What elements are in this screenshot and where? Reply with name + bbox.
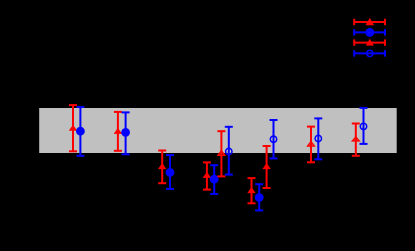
legend entry 1: red filled triangle [354,18,385,25]
series 3 point 4: red open triangle errorbar [217,131,225,176]
series 2 point 1: blue filled circle errorbar [76,107,85,156]
series 1 point 3: red filled triangle errorbar [158,151,166,184]
legend entry 2: blue filled circle [354,28,385,37]
series 1 point 2: red filled triangle errorbar [114,112,122,151]
series 1 point 4: red filled triangle errorbar [203,162,211,189]
series 2 point 4: blue filled circle errorbar [210,165,219,194]
series 4 point 4: blue open circle errorbar [225,127,233,175]
series 4 point 8: blue open circle errorbar [360,108,368,144]
series 3 point 7: red open triangle errorbar [307,127,315,163]
series 1 point 5: red filled triangle errorbar [247,178,255,203]
legend entry 3: red filled triangle (small) [354,39,385,46]
series 4 point 6: blue open circle errorbar [270,120,278,158]
series 1 point 6: red filled triangle errorbar [262,146,270,188]
series 2 point 5: blue filled circle errorbar [255,184,264,210]
series 2 point 2: blue filled circle errorbar [121,112,130,154]
series 1 point 1: red filled triangle errorbar [69,105,77,151]
series 2 point 3: blue filled circle errorbar [166,155,175,189]
legend entry 4: blue open circle [354,50,385,56]
series 3 point 8: red open triangle errorbar [352,124,360,156]
shaded band [39,108,397,153]
series 4 point 7: blue open circle errorbar [314,118,322,159]
